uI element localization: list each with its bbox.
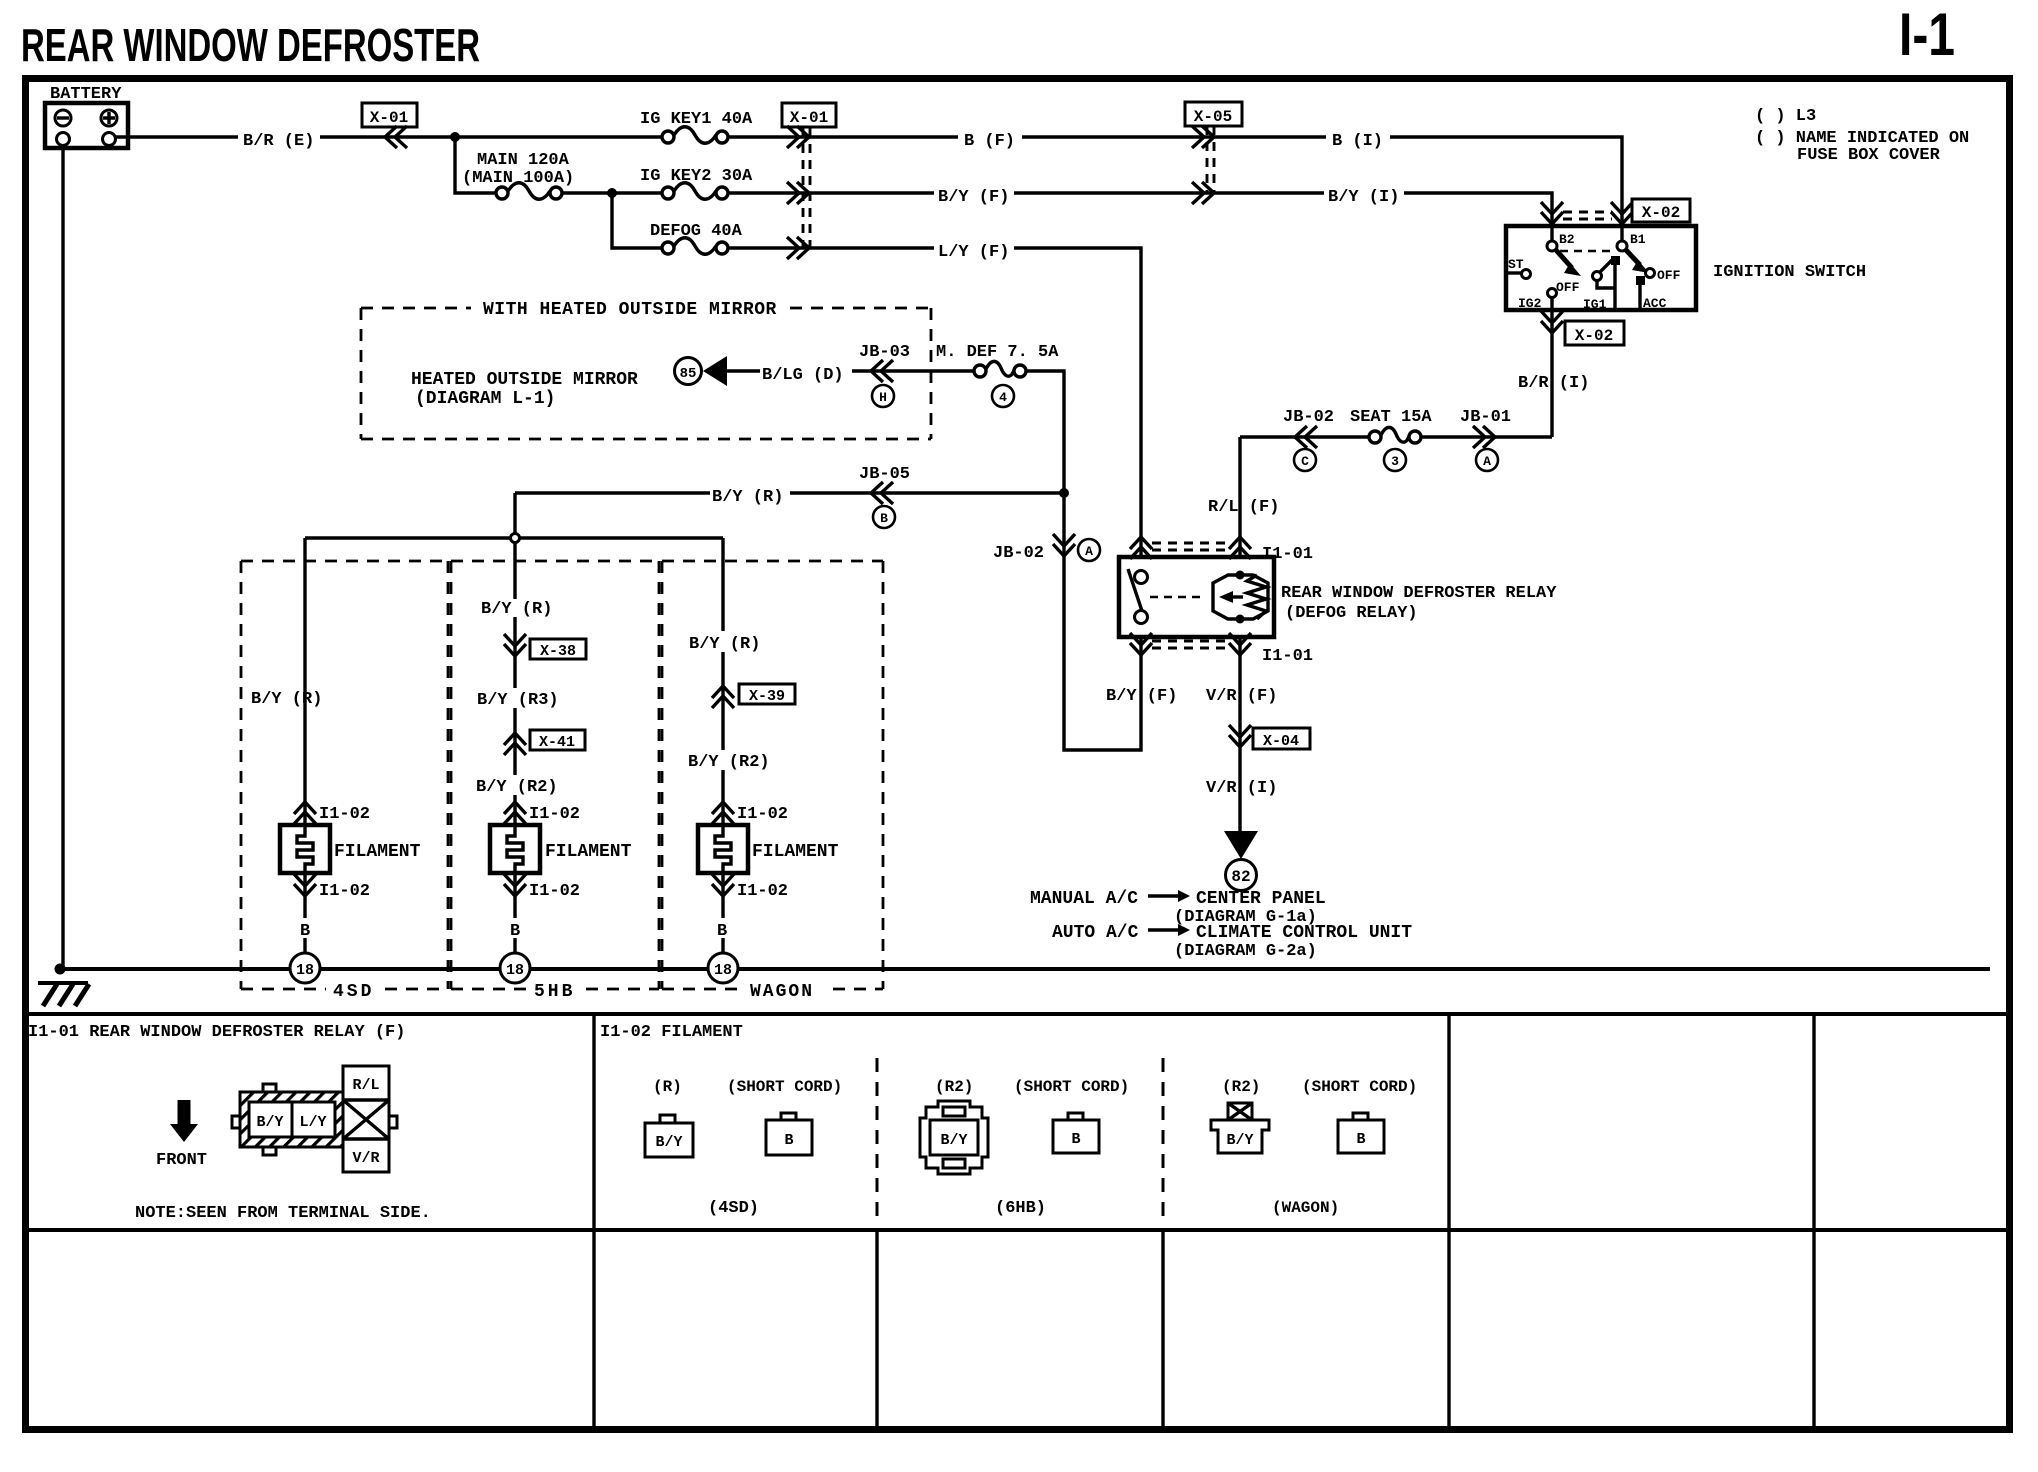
wire B/Y(R) row left — [515, 491, 710, 494]
svg-text:IG1: IG1 — [1583, 297, 1607, 312]
relay connector pin L/Y — [292, 1102, 335, 1137]
svg-text:L/Y: L/Y — [299, 1114, 326, 1131]
svg-text:(DIAGRAM G-2a): (DIAGRAM G-2a) — [1174, 942, 1317, 961]
svg-text:(DIAGRAM L-1): (DIAGRAM L-1) — [415, 389, 555, 409]
svg-text:18: 18 — [296, 962, 314, 979]
connector I1-01 chevron left top — [1130, 537, 1152, 559]
svg-text:A: A — [1483, 454, 1491, 469]
svg-text:B/Y: B/Y — [256, 1114, 283, 1131]
junction node B/Y(R) tap — [1059, 488, 1069, 498]
wire B/LG(D) left — [726, 369, 760, 372]
svg-text:OFF: OFF — [1657, 268, 1681, 283]
svg-text:V/R (F): V/R (F) — [1206, 687, 1277, 706]
svg-text:X-01: X-01 — [790, 109, 828, 127]
relay coil pin top — [1236, 571, 1245, 580]
ignition switch IG1 contact square — [1611, 256, 1620, 265]
ignition switch terminal IG2 — [1548, 289, 1557, 298]
svg-text:I1-01 REAR WINDOW DEFROSTER RE: I1-01 REAR WINDOW DEFROSTER RELAY (F) — [28, 1023, 405, 1042]
svg-text:MAIN 120A: MAIN 120A — [477, 151, 570, 170]
svg-text:B: B — [510, 922, 520, 941]
svg-text:A: A — [1085, 544, 1093, 559]
circled 3 — [1384, 449, 1406, 471]
filament connector B/Y 4SD — [645, 1115, 693, 1157]
svg-text:B/Y (R): B/Y (R) — [712, 488, 783, 507]
table top line — [25, 1012, 2010, 1016]
svg-text:B2: B2 — [1559, 232, 1575, 247]
svg-text:WAGON: WAGON — [750, 982, 814, 1002]
ignition switch U1 box — [1506, 226, 1696, 310]
ignition switch ACC contact square — [1636, 276, 1645, 285]
svg-text:JB-03: JB-03 — [859, 343, 910, 362]
svg-text:82: 82 — [1231, 868, 1250, 886]
svg-text:B/Y (R2): B/Y (R2) — [688, 753, 770, 772]
svg-text:B: B — [300, 922, 310, 941]
junction ring distribution — [511, 534, 520, 543]
svg-text:(6HB): (6HB) — [995, 1199, 1046, 1218]
ignition switch ACC drop wire — [1638, 285, 1641, 310]
svg-text:L/Y (F): L/Y (F) — [938, 243, 1009, 262]
svg-text:ACC: ACC — [1643, 296, 1667, 311]
table dashed divider 6HB/WAGON — [1162, 1058, 1165, 1218]
wire branch WAGON vertical — [721, 538, 724, 953]
wire distribution bus — [305, 536, 723, 539]
front arrow — [170, 1100, 198, 1142]
svg-text:FILAMENT: FILAMENT — [752, 842, 839, 862]
connector I1-01 chevron right bottom — [1229, 633, 1251, 655]
svg-text:4SD: 4SD — [333, 982, 374, 1002]
svg-text:CLIMATE CONTROL UNIT: CLIMATE CONTROL UNIT — [1196, 923, 1412, 943]
svg-text:JB-05: JB-05 — [859, 465, 910, 484]
circled B — [873, 506, 895, 528]
svg-text:FRONT: FRONT — [156, 1151, 207, 1170]
connector X-41 chevron — [504, 733, 526, 755]
svg-text:B (F): B (F) — [964, 132, 1015, 151]
connector I1-02 chevron top branch1 — [294, 802, 316, 824]
table vertical row2 col1 — [592, 1230, 595, 1429]
wire B(F) segment — [728, 135, 958, 138]
relay K1 box — [1119, 557, 1274, 637]
filament connector B 6HB — [1053, 1113, 1099, 1153]
wire SEAT row right — [1421, 435, 1552, 438]
heated mirror dashed box — [361, 308, 931, 439]
svg-text:I1-01: I1-01 — [1262, 647, 1313, 666]
svg-text:FILAMENT: FILAMENT — [545, 842, 632, 862]
connector X-05 chevron row2 — [1192, 182, 1214, 204]
connector X-01 chevron row3 — [787, 237, 809, 259]
table vertical row1 col2 — [1447, 1014, 1450, 1230]
fuse M.DEF 7.5A — [974, 361, 1026, 377]
connector X-02 bottom chevron — [1541, 311, 1563, 333]
circled 85 — [675, 358, 702, 385]
svg-text:B1: B1 — [1630, 232, 1646, 247]
connector X-39 chevron — [712, 686, 734, 708]
wire B/Y(R) row right — [790, 491, 1064, 494]
circled C — [1294, 449, 1316, 471]
svg-text:DEFOG 40A: DEFOG 40A — [650, 222, 743, 241]
table vertical row2 col2 — [875, 1230, 878, 1429]
svg-text:WITH HEATED OUTSIDE MIRROR: WITH HEATED OUTSIDE MIRROR — [483, 300, 777, 320]
connector X-39 box — [739, 684, 795, 705]
fuse MAIN 120A — [496, 183, 562, 200]
relay coil outline — [1213, 575, 1268, 619]
filament F3 box — [698, 825, 748, 873]
filament connector B/Y 6HB — [920, 1101, 988, 1174]
svg-text:B/Y: B/Y — [655, 1134, 682, 1151]
svg-text:V/R (I): V/R (I) — [1206, 779, 1277, 798]
svg-text:B/Y (R): B/Y (R) — [689, 635, 760, 654]
svg-text:IG KEY1 40A: IG KEY1 40A — [640, 110, 753, 129]
svg-text:JB-01: JB-01 — [1460, 408, 1511, 427]
arrow auto — [1148, 924, 1190, 936]
connector I1-02 chevron top branch3 — [712, 802, 734, 824]
ignition switch IG1 drop wire — [1597, 265, 1615, 310]
filament connector B 4SD — [766, 1113, 812, 1155]
svg-text:X-41: X-41 — [539, 734, 575, 751]
wire R/L(F) — [1238, 437, 1241, 557]
svg-text:X-38: X-38 — [540, 643, 576, 660]
svg-text:NOTE:SEEN FROM TERMINAL SIDE.: NOTE:SEEN FROM TERMINAL SIDE. — [135, 1204, 431, 1223]
svg-text:I1-02 FILAMENT: I1-02 FILAMENT — [600, 1023, 743, 1042]
connector I1-01 top dashed — [1152, 543, 1228, 550]
connector I1-02 chevron bottom branch1 — [294, 874, 316, 896]
wire V/R drop — [1238, 637, 1241, 831]
svg-text:X-39: X-39 — [749, 688, 785, 705]
wire B(I) to ignition switch B1 — [1390, 137, 1622, 241]
fuse SEAT 15A — [1369, 427, 1421, 443]
junction node ground — [55, 964, 66, 975]
svg-text:4: 4 — [999, 390, 1007, 405]
fuse IG KEY2 30A — [662, 183, 728, 200]
svg-text:(R): (R) — [653, 1078, 682, 1096]
ground symbol — [38, 983, 89, 1006]
connector X-01 chevron — [385, 126, 407, 148]
svg-text:JB-02: JB-02 — [993, 544, 1044, 563]
arrow manual — [1148, 890, 1190, 902]
svg-text:M. DEF 7. 5A: M. DEF 7. 5A — [936, 343, 1059, 362]
ignition switch dashed link — [1560, 250, 1614, 253]
connector I1-02 chevron bottom branch3 — [712, 874, 734, 896]
wire branch 5HB vertical — [513, 542, 516, 953]
connector X-38 box — [530, 639, 586, 660]
svg-text:B: B — [784, 1132, 793, 1149]
battery — [45, 103, 128, 148]
wire B/Y(F) segment — [728, 191, 934, 194]
table vertical row1 col3 — [1812, 1014, 1815, 1230]
table vertical row1 col1 — [592, 1014, 595, 1230]
svg-text:( ) L3: ( ) L3 — [1755, 107, 1816, 126]
ignition switch ST stub — [1506, 271, 1522, 274]
svg-text:(R2): (R2) — [935, 1078, 973, 1096]
svg-text:85: 85 — [680, 366, 697, 382]
svg-text:(WAGON): (WAGON) — [1272, 1199, 1339, 1217]
connector X-41 box — [530, 730, 585, 751]
wire B/Y(F) relay return — [1026, 371, 1141, 750]
svg-text:B/Y (I): B/Y (I) — [1328, 188, 1399, 207]
svg-text:X-01: X-01 — [370, 109, 408, 127]
connector X-04 chevron — [1229, 725, 1251, 747]
circled H — [872, 385, 894, 407]
svg-text:18: 18 — [714, 962, 732, 979]
arrow to mirror — [703, 356, 727, 386]
svg-text:I1-02: I1-02 — [737, 805, 788, 824]
svg-text:B/Y (F): B/Y (F) — [1106, 687, 1177, 706]
wire B/Y(I) to ignition switch B2 — [1404, 193, 1552, 241]
junction node main feed — [450, 132, 460, 142]
fuse DEFOG 40A — [662, 238, 728, 255]
relay connector right column — [343, 1066, 397, 1172]
svg-text:SEAT 15A: SEAT 15A — [1350, 408, 1432, 427]
svg-text:I-1: I-1 — [1899, 1, 1955, 68]
connector X-05 box — [1185, 102, 1242, 126]
relay coil zigzag — [1247, 575, 1266, 619]
svg-text:OFF: OFF — [1556, 280, 1580, 295]
table row divider — [25, 1228, 2010, 1232]
svg-text:HEATED OUTSIDE MIRROR: HEATED OUTSIDE MIRROR — [411, 370, 638, 390]
svg-text:I1-02: I1-02 — [529, 882, 580, 901]
wire SEAT row left — [1240, 435, 1369, 438]
connector X-01 fuse block box — [782, 103, 836, 127]
svg-text:X-02: X-02 — [1642, 204, 1680, 222]
connector X-01 inline box — [362, 103, 417, 127]
svg-text:B/LG (D): B/LG (D) — [762, 366, 844, 385]
svg-text:(SHORT CORD): (SHORT CORD) — [1302, 1078, 1417, 1096]
wire MAIN fuse to junction — [562, 191, 662, 194]
svg-text:R/L (F): R/L (F) — [1208, 498, 1279, 517]
wire branch 4SD vertical — [303, 538, 306, 953]
ignition switch terminal B1 — [1617, 241, 1627, 251]
relay actuation dashed link — [1150, 596, 1206, 599]
svg-text:I1-02: I1-02 — [319, 882, 370, 901]
svg-text:B: B — [1071, 1131, 1080, 1148]
svg-text:X-04: X-04 — [1263, 733, 1299, 750]
connector I1-02 chevron bottom branch2 — [504, 874, 526, 896]
svg-text:B/Y: B/Y — [940, 1132, 967, 1149]
svg-text:V/R: V/R — [352, 1150, 379, 1167]
wire L/Y(F) to relay column — [1014, 248, 1141, 557]
svg-text:X-05: X-05 — [1194, 108, 1232, 126]
svg-text:B: B — [880, 511, 888, 526]
svg-text:B/Y (R): B/Y (R) — [481, 600, 552, 619]
connector X-38 chevron — [504, 634, 526, 656]
svg-text:B/Y (F): B/Y (F) — [938, 188, 1009, 207]
junction node fuse feed — [607, 188, 617, 198]
connector JB-02 chevron relay — [1053, 534, 1075, 556]
fuse IG KEY1 40A — [662, 127, 728, 144]
svg-text:I1-01: I1-01 — [1262, 545, 1313, 564]
connector JB-03 chevron — [871, 360, 893, 382]
wire IG2 to SEAT row — [1550, 297, 1553, 437]
svg-text:B/Y (R): B/Y (R) — [251, 690, 322, 709]
circled 18 branch1 — [290, 953, 320, 983]
svg-text:(DEFOG RELAY): (DEFOG RELAY) — [1285, 604, 1418, 623]
wire B(F) to X-05 — [1022, 135, 1326, 138]
svg-text:B: B — [1356, 1131, 1365, 1148]
wire branch to MAIN fuse — [455, 137, 496, 193]
wire B/LG(D) right — [852, 369, 975, 372]
connector I1-01 chevron left bottom — [1130, 633, 1152, 655]
circled 82 — [1226, 860, 1257, 891]
relay switch contact bottom — [1135, 611, 1148, 624]
svg-text:5HB: 5HB — [534, 982, 575, 1002]
connector X-05 chevron row1 — [1192, 126, 1214, 148]
svg-text:REAR WINDOW DEFROSTER: REAR WINDOW DEFROSTER — [21, 19, 480, 71]
connector X-02 bottom box — [1565, 321, 1624, 345]
connector X-01 chevron row1 — [787, 126, 809, 148]
circled 18 branch3 — [708, 953, 738, 983]
connector JB-05 chevron — [871, 482, 893, 504]
connector I1-01 chevron right top — [1229, 537, 1251, 559]
svg-text:I1-02: I1-02 — [319, 805, 370, 824]
filament connector B/Y WAGON — [1211, 1103, 1269, 1153]
svg-text:B/Y (R3): B/Y (R3) — [477, 691, 559, 710]
circled A relay — [1078, 539, 1100, 561]
wire B/Y(R) drop to distribution — [513, 493, 516, 533]
ignition switch terminal ST — [1522, 270, 1531, 279]
svg-text:B/R (I): B/R (I) — [1518, 374, 1589, 393]
svg-text:B/R (E): B/R (E) — [243, 132, 314, 151]
connector X-02 chevron B1 — [1611, 202, 1633, 224]
svg-text:ST: ST — [1508, 257, 1524, 272]
wire junction down to DEFOG row — [612, 193, 662, 248]
svg-text:(SHORT CORD): (SHORT CORD) — [727, 1078, 842, 1096]
filament F1 box — [280, 825, 330, 873]
circled 4 — [992, 385, 1014, 407]
connector I1-02 chevron top branch2 — [504, 802, 526, 824]
filament connector B WAGON — [1338, 1113, 1384, 1153]
svg-text:REAR WINDOW DEFROSTER RELAY: REAR WINDOW DEFROSTER RELAY — [1281, 584, 1557, 603]
svg-text:I1-02: I1-02 — [737, 882, 788, 901]
ignition switch terminal OFF right — [1646, 269, 1655, 278]
svg-text:MANUAL A/C: MANUAL A/C — [1030, 889, 1138, 909]
table vertical row2 col5 — [1812, 1230, 1815, 1429]
svg-text:C: C — [1301, 454, 1309, 469]
svg-text:B/Y (R2): B/Y (R2) — [476, 778, 558, 797]
connector X-02 top dashed boundary — [1563, 212, 1612, 219]
wire battery negative to ground — [61, 146, 64, 969]
svg-text:FILAMENT: FILAMENT — [334, 842, 421, 862]
circled A seat — [1476, 449, 1498, 471]
svg-text:R/L: R/L — [352, 1077, 379, 1094]
svg-text:(SHORT CORD): (SHORT CORD) — [1014, 1078, 1129, 1096]
ignition switch blade B2 — [1556, 250, 1581, 276]
relay connector hatched housing — [232, 1084, 343, 1155]
relay switch blade — [1128, 569, 1142, 611]
svg-text:CENTER PANEL: CENTER PANEL — [1196, 889, 1326, 909]
svg-text:IG KEY2 30A: IG KEY2 30A — [640, 167, 753, 186]
ignition switch IG1 pivot — [1593, 272, 1602, 281]
ignition switch terminal B2 — [1547, 241, 1557, 251]
connector I1-01 bottom dashed — [1152, 641, 1228, 648]
table vertical row2 col3 — [1161, 1230, 1164, 1429]
svg-text:B (I): B (I) — [1332, 132, 1383, 151]
relay connector pin B/Y — [249, 1102, 292, 1137]
svg-text:B: B — [717, 922, 727, 941]
connector X-02 top box — [1632, 199, 1690, 222]
connector X-02 chevron B2 — [1541, 202, 1563, 224]
wire B/R(E) row — [116, 135, 662, 138]
svg-text:(R2): (R2) — [1222, 1078, 1260, 1096]
circled 18 branch2 — [500, 953, 530, 983]
filament F2 box — [490, 825, 540, 873]
svg-text:IG2: IG2 — [1518, 296, 1542, 311]
ground bus wire — [60, 967, 1990, 971]
svg-text:AUTO A/C: AUTO A/C — [1052, 923, 1139, 943]
svg-text:X-02: X-02 — [1575, 327, 1613, 345]
arrow to 82 — [1224, 831, 1258, 859]
svg-text:18: 18 — [506, 962, 524, 979]
dashed box 5HB — [451, 561, 659, 989]
table vertical row2 col4 — [1447, 1230, 1450, 1429]
connector JB-01 chevron — [1473, 426, 1495, 448]
wire B/Y(F) to X-05 — [1014, 191, 1324, 194]
connector JB-02 chevron — [1295, 426, 1317, 448]
svg-text:JB-02: JB-02 — [1283, 408, 1334, 427]
svg-text:B/Y: B/Y — [1226, 1132, 1253, 1149]
svg-text:I1-02: I1-02 — [529, 805, 580, 824]
dashed box 4SD — [241, 561, 448, 989]
wire L/Y(F) segment — [728, 246, 934, 249]
relay coil arrow — [1219, 591, 1243, 603]
connector X-01 chevron row2 — [787, 182, 809, 204]
ignition switch IG1 riser — [1600, 258, 1614, 272]
dashed box WAGON — [662, 561, 883, 989]
relay switch contact top — [1135, 571, 1148, 584]
connector X-05 dashed boundary — [1207, 126, 1214, 193]
table dashed divider 4SD/6HB — [876, 1058, 879, 1218]
ignition switch blade B1 — [1626, 250, 1649, 273]
svg-text:(MAIN 100A): (MAIN 100A) — [462, 169, 574, 188]
svg-text:IGNITION SWITCH: IGNITION SWITCH — [1713, 263, 1866, 282]
connector X-01 dashed boundary — [803, 128, 810, 248]
svg-text:FUSE BOX COVER: FUSE BOX COVER — [1797, 146, 1941, 165]
svg-text:3: 3 — [1391, 454, 1399, 469]
svg-text:(4SD): (4SD) — [708, 1199, 759, 1218]
svg-text:H: H — [879, 390, 887, 405]
connector X-04 box — [1253, 728, 1310, 750]
relay coil pin bottom — [1236, 615, 1245, 624]
